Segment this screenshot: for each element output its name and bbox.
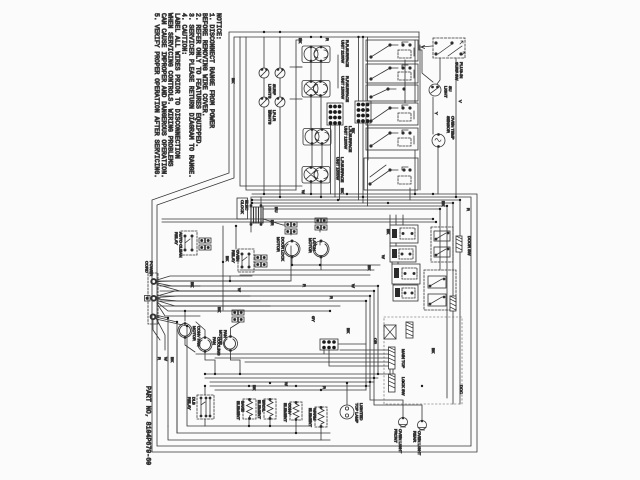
- wire middle fan bus y301: [160, 300, 366, 302]
- svg-text:R: R: [325, 38, 330, 41]
- svg-text:R: R: [322, 386, 327, 389]
- svg-text:CORD: CORD: [145, 261, 150, 273]
- convection fan motor: [178, 323, 192, 339]
- cooling fan motor: [198, 337, 212, 353]
- svg-text:MOTOR: MOTOR: [192, 326, 197, 341]
- infinite switch SW3: [366, 85, 418, 101]
- svg-text:DOC: DOC: [459, 385, 464, 394]
- svg-text:R: R: [466, 208, 471, 211]
- svg-text:BK: BK: [231, 78, 236, 84]
- svg-text:BK: BK: [386, 229, 391, 235]
- svg-text:V: V: [458, 100, 463, 103]
- wire L2 inner supply loop (diagram frame inner line): [157, 37, 471, 446]
- svg-text:PART NO, 8104P679-60: PART NO, 8104P679-60: [145, 386, 152, 465]
- svg-text:R: R: [157, 357, 162, 360]
- bake element coil: [243, 398, 256, 419]
- svg-text:W: W: [268, 110, 273, 114]
- svg-text:BK: BK: [431, 348, 436, 354]
- svg-text:BK: BK: [367, 265, 372, 271]
- wire power fan-out from ring N: [157, 291, 330, 316]
- oven temp sensor: [432, 134, 445, 148]
- svg-text:W: W: [237, 288, 242, 292]
- relay bank unit 1: [390, 225, 418, 243]
- svg-text:MOTOR: MOTOR: [308, 238, 313, 253]
- svg-text:FRONT: FRONT: [394, 429, 399, 443]
- svg-text:BK: BK: [252, 385, 257, 391]
- broil element coil: [264, 398, 276, 419]
- wire middle fan bus y296: [160, 295, 370, 297]
- connector J4: [255, 255, 267, 267]
- wire bottom L y440: [168, 318, 330, 440]
- wire sensor column: [433, 58, 456, 197]
- svg-text:SURF SW: SURF SW: [455, 62, 460, 81]
- svg-text:W: W: [164, 357, 169, 361]
- wire motor drops: [223, 226, 380, 310]
- svg-text:BK: BK: [225, 256, 230, 262]
- wire bus y219: [162, 218, 433, 220]
- wire top bus y203: [252, 203, 453, 404]
- terminal block TB1: [327, 103, 343, 125]
- svg-text:FAN: FAN: [212, 337, 217, 345]
- oven light bulb 2: [418, 420, 427, 430]
- power cord ground tab: [145, 296, 151, 302]
- terminal block TB2: [355, 101, 371, 123]
- svg-text:LIGHTS: LIGHTS: [268, 84, 273, 99]
- svg-text:UNIT 1500W: UNIT 1500W: [336, 157, 341, 180]
- svg-text:R: R: [329, 296, 334, 299]
- surface element RR dual coil: [302, 46, 330, 63]
- svg-text:BU: BU: [274, 207, 279, 213]
- power cord ring L2: [151, 314, 159, 319]
- wire lower bus y386: [210, 385, 370, 387]
- wire lower bus y374: [205, 373, 388, 375]
- indicator light LR surface: [259, 97, 269, 107]
- wire middle fan bus y291: [160, 290, 374, 292]
- svg-text:CLOCK: CLOCK: [240, 200, 245, 214]
- relay bank unit 2: [390, 246, 416, 262]
- power cord dashed box: [148, 273, 158, 324]
- indicator light RF surface: [275, 68, 285, 78]
- connector P1 hatched: [456, 236, 462, 252]
- wire lower bus y382: [210, 381, 374, 383]
- svg-text:UNIT 1200W: UNIT 1200W: [344, 126, 349, 149]
- oven relay K2 (dashed): [238, 249, 254, 272]
- wire top bus y200: [252, 200, 460, 404]
- oven light bulb 1: [399, 417, 408, 427]
- power cord ring N: [151, 296, 160, 301]
- wire lower bus y390: [215, 389, 366, 391]
- indicator light RR surface: [275, 97, 285, 107]
- infinite switch SW4: [366, 128, 418, 150]
- svg-text:R: R: [302, 284, 307, 287]
- oven lamp: [340, 383, 354, 419]
- wire center vertical bundle: [366, 286, 378, 390]
- svg-text:BK: BK: [351, 128, 356, 134]
- svg-text:ELEMENT: ELEMENT: [308, 408, 313, 427]
- oven selector switch SW5: [364, 158, 418, 190]
- warmer element coil: [315, 406, 327, 427]
- svg-text:BK: BK: [346, 328, 351, 334]
- svg-text:ELEMENT: ELEMENT: [283, 403, 288, 422]
- wire lower bus y378: [205, 377, 378, 379]
- svg-text:DOOR SW: DOOR SW: [467, 236, 472, 256]
- infinite switch SW1: [366, 40, 418, 61]
- indicator light LF surface: [259, 68, 269, 78]
- infinite switch SW2: [366, 64, 418, 83]
- relay bank unit 4: [393, 285, 418, 301]
- svg-text:RELAY: RELAY: [187, 397, 192, 410]
- svg-text:BK: BK: [190, 282, 195, 288]
- DOC dashed enclosure: [384, 317, 462, 404]
- wire fan motor connections: [185, 311, 240, 374]
- svg-text:LOCK SW: LOCK SW: [401, 377, 406, 396]
- connector J1: [285, 222, 297, 234]
- svg-text:SENSOR: SENSOR: [446, 116, 451, 133]
- wire power fan-out from ring L2: [153, 315, 187, 350]
- svg-text:W: W: [301, 190, 306, 194]
- electronic clock label box: [237, 198, 248, 219]
- wire grid TB2 drops to bus: [359, 123, 368, 206]
- svg-text:W: W: [351, 284, 356, 288]
- connector grid 2x3: [320, 339, 338, 350]
- svg-text:BK: BK: [170, 357, 175, 363]
- arrow to plug-in switch: [421, 46, 432, 49]
- surface element LR dual coil: [303, 129, 331, 146]
- connector J5: [232, 310, 244, 322]
- clock transformer: [250, 205, 283, 226]
- svg-text:UNIT 2100W: UNIT 2100W: [341, 40, 346, 63]
- surface unit lamp: [429, 84, 441, 96]
- wire L1 outer supply loop (diagram frame outer line): [152, 32, 477, 452]
- svg-text:MAIN TOP: MAIN TOP: [401, 349, 406, 369]
- svg-text:ELEMENT: ELEMENT: [236, 401, 241, 420]
- connector strip hatched C: [406, 322, 413, 338]
- wire bottom bus y426 junction risers: [249, 418, 321, 440]
- connector J3: [199, 238, 211, 250]
- svg-text:REAR: REAR: [413, 431, 418, 442]
- wire bottom L y426: [187, 326, 310, 426]
- wire strip feeders y350-366: [196, 344, 389, 366]
- door lock motor M2: [313, 240, 329, 258]
- svg-text:OR: OR: [373, 338, 378, 344]
- wire lamp feeds bottom right: [370, 369, 422, 420]
- wire relay bank columns: [390, 215, 403, 285]
- plug-in surface unit switch: [433, 38, 465, 58]
- surface element RF dual coil: [302, 81, 330, 98]
- DLB relay cluster (dashed): [197, 395, 214, 419]
- interlock box with X: [384, 325, 396, 339]
- connector J2: [315, 218, 327, 230]
- door switch cluster upper (dashed): [431, 227, 453, 262]
- notice text block: [153, 13, 222, 178]
- wire surface lights drop columns: [264, 37, 280, 197]
- surface element LF dual coil: [302, 167, 330, 184]
- wire grid TB2 feeds up: [359, 37, 368, 101]
- wire grid TB1 drops to bus: [331, 125, 340, 200]
- svg-text:W: W: [284, 382, 289, 386]
- wire top bus y206: [263, 206, 447, 398]
- wire top bus y209: [263, 209, 440, 270]
- wire switch column drops: [296, 40, 420, 200]
- convection element coil: [290, 401, 302, 420]
- svg-text:RELAY: RELAY: [231, 250, 236, 263]
- wire bus y222: [162, 221, 436, 223]
- wire middle fan bus y286: [160, 285, 378, 287]
- svg-text:MOTOR: MOTOR: [276, 237, 281, 252]
- wire bottom L y433: [177, 322, 330, 433]
- wire middle fan bus y306: [160, 305, 340, 307]
- connector strip hatched A: [389, 347, 396, 369]
- svg-text:RELAY: RELAY: [174, 232, 179, 245]
- svg-text:BK: BK: [340, 188, 345, 194]
- wire surface element feeds: [296, 40, 338, 197]
- wire jog at top-right feeding surface unit lamp: [419, 32, 433, 82]
- svg-text:Y: Y: [434, 112, 439, 115]
- svg-text:BK: BK: [441, 201, 446, 207]
- svg-text:GY: GY: [311, 316, 316, 322]
- wire clock risers: [251, 197, 320, 281]
- auto clean relay K1 (dashed): [181, 231, 197, 255]
- door lock motor M1: [284, 240, 300, 258]
- svg-text:W: W: [381, 255, 386, 259]
- door switch cluster lower (dashed): [424, 270, 456, 310]
- relay bank unit 3: [392, 264, 420, 284]
- svg-text:TOP LAMP: TOP LAMP: [355, 403, 360, 423]
- wire element row links: [240, 37, 302, 190]
- connector P2 hatched: [450, 296, 456, 311]
- wire power fan-out from ring L1: [157, 276, 290, 291]
- oven light motor circle: [224, 336, 238, 352]
- svg-text:LIGHT: LIGHT: [444, 86, 449, 98]
- wire middle fan bus y281: [158, 280, 290, 282]
- connector strip hatched B: [389, 374, 396, 392]
- svg-text:ELEMENT: ELEMENT: [257, 400, 262, 419]
- svg-text:BR: BR: [270, 220, 275, 226]
- svg-text:BK: BK: [217, 307, 222, 313]
- infinite switch SW3b: [366, 103, 418, 125]
- svg-text:UNIT 1500W: UNIT 1500W: [341, 76, 346, 99]
- svg-text:5. VERIFY PROPER OPERATION AFT: 5. VERIFY PROPER OPERATION AFTER SERVICI…: [153, 13, 160, 178]
- svg-text:BK: BK: [298, 38, 303, 44]
- wire bottom left risers: [168, 340, 205, 433]
- svg-text:MOTOR: MOTOR: [219, 330, 224, 345]
- power cord ring L1: [151, 279, 160, 284]
